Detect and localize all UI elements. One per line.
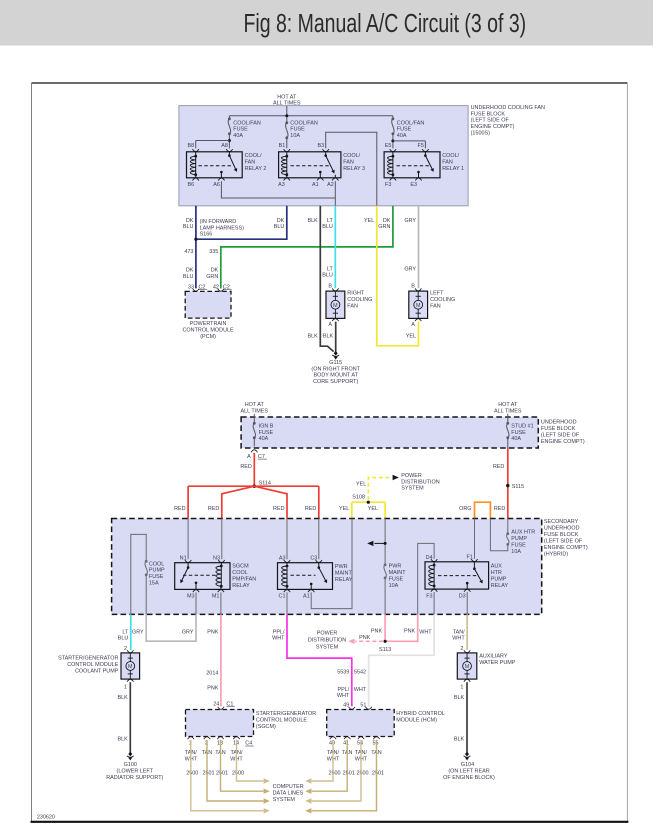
svg-text:2501: 2501 [372,771,384,777]
svg-text:COOL: COOL [149,561,164,567]
svg-text:PPL/: PPL/ [273,629,285,635]
svg-text:BLK: BLK [118,737,129,743]
svg-text:2500: 2500 [232,771,244,777]
svg-text:2501: 2501 [216,771,228,777]
svg-text:RED: RED [240,464,252,470]
svg-text:BLK: BLK [308,333,319,339]
svg-text:Fig 8: Manual A/C Circuit (3 o: Fig 8: Manual A/C Circuit (3 of 3) [243,8,526,37]
svg-text:E3: E3 [410,182,417,188]
svg-text:WHT: WHT [337,693,350,699]
svg-text:BODY MOUNT AT: BODY MOUNT AT [313,373,358,379]
svg-text:(IN FORWARD: (IN FORWARD [200,219,237,225]
svg-text:40: 40 [329,741,335,747]
svg-text:YEL: YEL [339,506,349,512]
svg-text:RELAY: RELAY [491,583,509,589]
svg-text:A1: A1 [312,182,319,188]
svg-text:5539: 5539 [337,670,349,676]
svg-text:5542: 5542 [354,670,366,676]
svg-text:F1: F1 [467,555,473,561]
svg-text:335: 335 [209,249,218,255]
svg-text:G104: G104 [461,762,474,768]
svg-text:ENGINE COMPT): ENGINE COMPT) [471,124,515,130]
svg-text:LT: LT [327,218,334,224]
svg-text:ENGINE COMPT): ENGINE COMPT) [544,545,588,551]
svg-text:UNDERHOOD: UNDERHOOD [541,420,577,426]
svg-text:STARTER/GENERATOR: STARTER/GENERATOR [58,655,118,661]
svg-text:M3: M3 [187,594,195,600]
svg-text:FAN: FAN [430,303,441,309]
svg-text:51: 51 [360,702,366,708]
svg-text:FUSE: FUSE [511,542,526,548]
svg-text:15A: 15A [149,580,159,586]
svg-text:STUD #1: STUD #1 [511,424,533,430]
svg-text:STARTER/GENERATOR: STARTER/GENERATOR [256,711,316,717]
svg-text:PUMP: PUMP [149,568,165,574]
svg-text:WATER PUMP: WATER PUMP [479,660,516,666]
svg-text:F3: F3 [426,593,432,599]
svg-text:COOL: COOL [232,570,247,576]
svg-text:(LOWER LEFT: (LOWER LEFT [117,769,154,775]
svg-text:UNDERHOOD COOLING FAN: UNDERHOOD COOLING FAN [471,105,545,111]
svg-text:33: 33 [188,284,194,290]
svg-text:RIGHT: RIGHT [347,291,365,297]
svg-text:FUSE: FUSE [389,576,404,582]
svg-text:GRY: GRY [404,218,416,224]
svg-text:COOL/: COOL/ [245,153,262,159]
svg-text:A: A [411,322,415,328]
svg-text:RED: RED [174,506,186,512]
svg-text:S115: S115 [512,484,524,490]
svg-text:IGN B: IGN B [259,424,274,430]
svg-text:LEFT: LEFT [430,291,444,297]
svg-text:A1: A1 [303,594,310,600]
svg-text:PUMP: PUMP [491,576,507,582]
svg-text:(LEFT SIDE OF: (LEFT SIDE OF [541,432,580,438]
svg-text:FUSE BLOCK: FUSE BLOCK [541,426,576,432]
svg-text:PNK: PNK [404,629,416,635]
svg-text:POWERTRAIN: POWERTRAIN [190,321,227,327]
svg-text:YEL: YEL [368,506,378,512]
svg-text:DK: DK [277,218,285,224]
svg-text:DISTRIBUTION: DISTRIBUTION [401,479,439,485]
svg-text:HOT AT: HOT AT [277,94,297,100]
svg-text:RELAY 2: RELAY 2 [245,166,267,172]
svg-text:COOL/FAN: COOL/FAN [290,120,318,126]
svg-text:DK: DK [186,218,194,224]
svg-text:GRN: GRN [378,224,390,230]
svg-text:COOL/: COOL/ [442,153,459,159]
svg-text:COOL/FAN: COOL/FAN [233,120,261,126]
svg-text:RADIATOR SUPPORT): RADIATOR SUPPORT) [106,775,163,781]
svg-text:40A: 40A [233,133,243,139]
svg-text:YEL: YEL [356,481,366,487]
svg-text:LAMP HARNESS): LAMP HARNESS) [200,225,245,231]
svg-text:G115: G115 [329,360,342,366]
svg-text:24: 24 [213,701,219,707]
svg-text:B6: B6 [188,182,195,188]
svg-text:2500: 2500 [186,771,198,777]
svg-text:2: 2 [124,646,127,652]
svg-text:LT: LT [122,629,129,635]
svg-text:10A: 10A [290,133,300,139]
svg-text:1: 1 [460,684,463,690]
svg-text:GRY: GRY [404,266,416,272]
svg-text:2501: 2501 [343,771,355,777]
svg-text:D3: D3 [459,593,466,599]
svg-text:SYSTEM: SYSTEM [273,797,296,803]
svg-text:MODULE (HCM): MODULE (HCM) [396,718,437,724]
svg-text:UNDERHOOD: UNDERHOOD [544,525,580,531]
svg-text:40A: 40A [511,436,521,442]
svg-text:HOT AT: HOT AT [498,402,518,408]
svg-text:PNK: PNK [207,629,219,635]
svg-text:A: A [328,322,332,328]
svg-text:F3: F3 [385,182,391,188]
svg-text:SGCM: SGCM [232,563,249,569]
svg-text:PMP/FAN: PMP/FAN [232,576,256,582]
svg-text:SYSTEM: SYSTEM [316,645,339,651]
svg-text:(PCM): (PCM) [200,334,216,340]
svg-text:A6: A6 [213,182,220,188]
svg-text:FUSE: FUSE [149,574,164,580]
svg-text:RED: RED [208,506,220,512]
svg-text:COOL/: COOL/ [343,153,360,159]
svg-text:DISTRIBUTION: DISTRIBUTION [308,638,346,644]
svg-text:BLK: BLK [118,695,129,701]
svg-text:AUX: AUX [491,563,503,569]
svg-text:AUXILIARY: AUXILIARY [479,653,508,659]
svg-text:2500: 2500 [328,771,340,777]
svg-text:MAINT: MAINT [389,570,407,576]
svg-text:ALL TIMES: ALL TIMES [241,409,269,415]
svg-text:(ON RIGHT FRONT: (ON RIGHT FRONT [311,366,360,372]
svg-text:SECONDARY: SECONDARY [544,519,579,525]
svg-text:B3: B3 [318,143,325,149]
svg-text:M: M [416,303,421,309]
svg-text:BLK: BLK [323,333,334,339]
svg-text:DK: DK [383,218,391,224]
svg-text:FUSE: FUSE [259,430,274,436]
svg-text:230620: 230620 [37,814,55,820]
svg-text:COOL/FAN: COOL/FAN [397,120,425,126]
svg-text:COOLING: COOLING [430,297,455,303]
svg-text:POWER: POWER [317,631,338,637]
svg-text:M: M [128,664,133,670]
svg-text:PNK: PNK [207,685,219,691]
svg-text:PWR: PWR [335,564,348,570]
svg-text:FAN: FAN [343,160,354,166]
svg-text:M: M [465,664,470,670]
svg-text:S113: S113 [379,647,391,653]
svg-text:RED: RED [494,506,506,512]
svg-text:(1500S): (1500S) [471,131,491,137]
svg-text:S108: S108 [352,495,365,501]
svg-text:PWR: PWR [389,563,402,569]
svg-text:N3: N3 [213,556,220,562]
svg-text:BLU: BLU [183,274,194,280]
svg-text:A3: A3 [278,182,285,188]
svg-text:HTR: HTR [491,570,502,576]
svg-text:BLU: BLU [183,224,194,230]
svg-text:DK: DK [186,268,194,274]
svg-text:POWER: POWER [401,473,422,479]
svg-text:RED: RED [493,464,505,470]
svg-text:2501: 2501 [202,771,214,777]
svg-text:D4: D4 [426,555,433,561]
svg-text:ALL TIMES: ALL TIMES [494,409,522,415]
svg-text:2014: 2014 [206,670,218,676]
svg-text:PUMP: PUMP [511,536,527,542]
svg-text:FUSE: FUSE [290,127,305,133]
svg-text:BLU: BLU [322,224,333,230]
svg-text:54: 54 [357,741,363,747]
svg-text:GRY: GRY [132,629,144,635]
svg-text:RELAY: RELAY [335,577,353,583]
svg-text:BLK: BLK [308,218,319,224]
svg-text:PNK: PNK [359,635,371,641]
svg-text:PNK: PNK [371,629,383,635]
svg-text:AUX HTR: AUX HTR [511,529,535,535]
svg-text:COOLING: COOLING [347,297,372,303]
svg-text:GRN: GRN [206,274,218,280]
svg-text:FAN: FAN [347,303,358,309]
svg-text:CORE SUPPORT): CORE SUPPORT) [313,379,358,385]
svg-text:S166: S166 [200,232,213,238]
svg-text:(SGCM): (SGCM) [256,724,276,730]
svg-text:WHT: WHT [272,636,285,642]
svg-text:N1: N1 [180,556,187,562]
svg-text:RELAY: RELAY [232,583,250,589]
svg-text:FUSE: FUSE [511,430,526,436]
svg-text:RED: RED [305,506,317,512]
svg-text:DATA LINES: DATA LINES [273,791,304,797]
svg-text:40A: 40A [259,436,269,442]
svg-text:YEL: YEL [364,218,374,224]
svg-text:B: B [411,283,415,289]
svg-text:M: M [333,303,338,309]
svg-text:40A: 40A [397,133,407,139]
svg-text:(LEFT SIDE OF: (LEFT SIDE OF [471,118,510,124]
svg-text:A2: A2 [327,182,334,188]
svg-text:(HYBRID): (HYBRID) [544,551,568,557]
svg-text:WHT: WHT [452,636,465,642]
svg-text:MAINT: MAINT [335,570,353,576]
svg-text:(LEFT SIDE OF: (LEFT SIDE OF [544,538,583,544]
svg-text:F5: F5 [418,143,424,149]
svg-text:49: 49 [343,702,349,708]
svg-text:SYSTEM: SYSTEM [401,486,424,492]
svg-text:A3: A3 [279,556,286,562]
svg-text:C1: C1 [279,594,286,600]
svg-text:FUSE: FUSE [397,127,412,133]
svg-text:YEL: YEL [406,333,416,339]
svg-text:473: 473 [184,249,193,255]
svg-text:HOT AT: HOT AT [245,402,265,408]
svg-text:BLU: BLU [274,224,285,230]
svg-text:BLU: BLU [118,636,129,642]
svg-text:B1: B1 [279,143,286,149]
svg-text:CONTROL MODULE: CONTROL MODULE [256,718,308,724]
svg-text:FUSE BLOCK: FUSE BLOCK [471,111,506,117]
svg-text:CONTROL MODULE: CONTROL MODULE [67,662,119,668]
svg-text:COOLANT PUMP: COOLANT PUMP [75,668,119,674]
svg-text:WHT: WHT [354,687,367,693]
svg-text:TAN/: TAN/ [453,629,465,635]
svg-text:42: 42 [213,284,219,290]
svg-text:ENGINE COMPT): ENGINE COMPT) [541,439,585,445]
svg-text:2500: 2500 [356,771,368,777]
svg-text:1: 1 [124,684,127,690]
svg-text:C3: C3 [310,556,317,562]
svg-text:FAN: FAN [245,160,256,166]
svg-text:RELAY 1: RELAY 1 [442,166,464,172]
svg-text:2: 2 [460,646,463,652]
svg-text:BLK: BLK [454,737,465,743]
svg-text:ORG: ORG [459,506,471,512]
svg-text:FUSE BLOCK: FUSE BLOCK [544,532,579,538]
svg-text:CONTROL MODULE: CONTROL MODULE [183,328,235,334]
svg-text:PPL/: PPL/ [338,687,350,693]
svg-text:BLU: BLU [322,273,333,279]
svg-text:G100: G100 [124,762,137,768]
svg-text:HYBRID CONTROL: HYBRID CONTROL [396,711,445,717]
svg-text:BLK: BLK [454,695,465,701]
svg-text:41: 41 [343,741,349,747]
svg-text:DK: DK [211,268,219,274]
svg-text:B8: B8 [188,143,195,149]
svg-text:A: A [247,454,251,460]
svg-text:RED: RED [273,506,285,512]
svg-text:FUSE: FUSE [233,127,248,133]
svg-text:COMPUTER: COMPUTER [273,784,304,790]
svg-text:FAN: FAN [442,160,453,166]
svg-text:LT: LT [327,266,334,272]
svg-text:10A: 10A [389,583,399,589]
svg-text:M1: M1 [212,594,220,600]
svg-text:WHT: WHT [419,629,432,635]
svg-text:55: 55 [372,741,378,747]
svg-text:A8: A8 [221,143,228,149]
svg-text:OF ENGINE BLOCK): OF ENGINE BLOCK) [443,775,495,781]
svg-text:10A: 10A [511,549,521,555]
svg-text:RELAY 3: RELAY 3 [343,166,365,172]
svg-text:B: B [328,283,332,289]
svg-text:E5: E5 [385,143,392,149]
svg-text:(ON LEFT REAR: (ON LEFT REAR [448,769,489,775]
svg-text:GRY: GRY [182,629,194,635]
